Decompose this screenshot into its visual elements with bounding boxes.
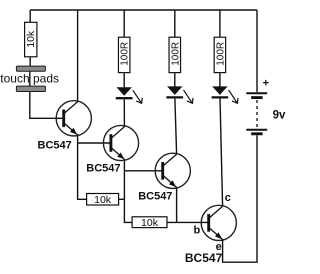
svg-text:BC547: BC547 [86, 162, 120, 174]
wire: rail drop LED branch 3 [219, 10, 221, 37]
resistor R6 100R (vertical) [214, 37, 226, 72]
svg-text:100R: 100R [215, 42, 226, 66]
wire: Q4 emitter to battery negative [223, 135, 257, 262]
transistor Q2 [103, 125, 138, 160]
touch pad (lower) [16, 86, 45, 91]
wire: R5 to LED2 anode [174, 73, 176, 87]
svg-text:100R: 100R [120, 42, 131, 66]
wire: node A branch to Q2 base [78, 142, 112, 144]
wire: node A - Q1 emitter down to R2 row [78, 135, 87, 199]
wire: Q1 collector to rail [77, 10, 79, 102]
resistor R5 100R (vertical) [169, 37, 181, 72]
LED D1 emission arrow [133, 90, 142, 103]
wire: R1 to touch pad 1 [29, 57, 31, 66]
svg-text:10k: 10k [94, 194, 112, 206]
wire: rail drop LED branch 2 [174, 10, 176, 37]
resistor R3 10k (horizontal) [132, 217, 167, 229]
wire: R4 to LED1 anode [123, 73, 125, 88]
svg-text:9v: 9v [273, 109, 286, 121]
wire: rail drop LED branch 1 [123, 10, 125, 37]
wire: rail to battery positive [256, 10, 258, 92]
touch pad (upper) [16, 66, 45, 71]
svg-text:BC547: BC547 [138, 191, 172, 203]
wire: R6 to LED3 anode [219, 73, 221, 87]
svg-text:b: b [194, 224, 201, 236]
wire: node C - Q3 emitter down to Q4 base row [176, 187, 178, 222]
wire: LED1 cathode to Q2 collector [123, 99, 125, 126]
svg-text:10k: 10k [25, 30, 37, 48]
svg-text:BC547: BC547 [185, 251, 223, 265]
LED D2 [166, 86, 183, 97]
transistor Q3 [155, 153, 190, 188]
wire: rail to R1 top [29, 10, 31, 23]
LED D3 emission arrow [229, 90, 238, 103]
svg-text:10k: 10k [141, 217, 159, 229]
wire: LED2 cathode to Q3 collector [175, 99, 177, 155]
svg-text:c: c [225, 192, 231, 204]
battery B1 9v [246, 93, 267, 134]
svg-text:100R: 100R [170, 42, 181, 66]
svg-text:BC547: BC547 [38, 140, 72, 152]
wire: R3 right to Q4 base [167, 221, 210, 223]
resistor R1 10k (vertical) [25, 22, 37, 57]
svg-text:touch pads: touch pads [0, 71, 59, 85]
LED D3 [212, 86, 229, 97]
wire: LED3 cathode to Q4 collector [220, 99, 223, 207]
transistor Q4 [201, 205, 236, 240]
resistor R2 10k (horizontal) [87, 194, 119, 207]
resistor R4 100R (vertical) [118, 37, 130, 72]
transistor Q1 [56, 101, 91, 136]
svg-text:+: + [263, 78, 269, 90]
LED D1 [116, 87, 133, 98]
LED D2 emission arrow [184, 90, 194, 103]
wire: node B branch to Q3 base [124, 170, 163, 172]
wire: between touch pads [29, 71, 31, 86]
wire: top supply rail [30, 9, 257, 11]
wire: R2 right lead to node B [119, 198, 125, 200]
wire: node B - Q2 emitter down to R3 row [124, 160, 132, 223]
wire: touch pad 2 to Q1 base [30, 92, 65, 119]
